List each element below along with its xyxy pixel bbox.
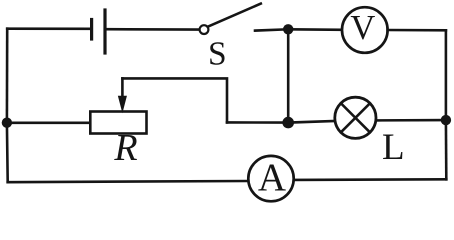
wire lamp to right junction bbox=[376, 119, 446, 122]
node junction top (dot) bbox=[283, 24, 293, 34]
wire wiper loop (up, across, down) bbox=[122, 78, 227, 122]
node junction left (dot) bbox=[2, 118, 12, 128]
switch S bbox=[200, 4, 261, 34]
svg-text:A: A bbox=[258, 156, 286, 199]
left wall upper wire bbox=[6, 29, 9, 123]
wire left junction to rheostat bbox=[7, 122, 90, 125]
left wall lower wire bbox=[6, 123, 9, 183]
svg-text:R: R bbox=[113, 127, 137, 169]
resistor R (rheostat body) bbox=[90, 112, 146, 134]
ammeter U-A bbox=[248, 156, 293, 201]
wire top rail left (corner to battery) bbox=[7, 27, 91, 30]
wire wiper drop to mid junction bbox=[227, 121, 288, 124]
wire bottom rail left (ammeter to corner) bbox=[8, 181, 248, 182]
right wall upper wire bbox=[445, 30, 448, 120]
rheostat wiper arrow bbox=[119, 78, 127, 111]
wire vertical from top junction to mid junction bbox=[287, 29, 290, 122]
voltmeter U-V bbox=[342, 7, 388, 53]
wire bottom rail right (corner to ammeter) bbox=[293, 178, 446, 181]
node junction mid (dot) bbox=[282, 117, 294, 129]
lamp L bbox=[335, 97, 376, 138]
wire junction to voltmeter bbox=[288, 28, 342, 31]
wire battery to switch bbox=[105, 28, 199, 31]
wire switch stub to junction bbox=[255, 29, 288, 30]
svg-text:L: L bbox=[382, 127, 405, 168]
svg-text:V: V bbox=[350, 9, 375, 47]
node junction right (dot) bbox=[441, 115, 451, 125]
wire voltmeter to top-right corner bbox=[388, 29, 446, 32]
battery bbox=[92, 10, 105, 53]
wire mid junction to lamp bbox=[288, 121, 335, 123]
svg-text:S: S bbox=[208, 36, 227, 73]
right wall lower wire bbox=[445, 120, 448, 179]
